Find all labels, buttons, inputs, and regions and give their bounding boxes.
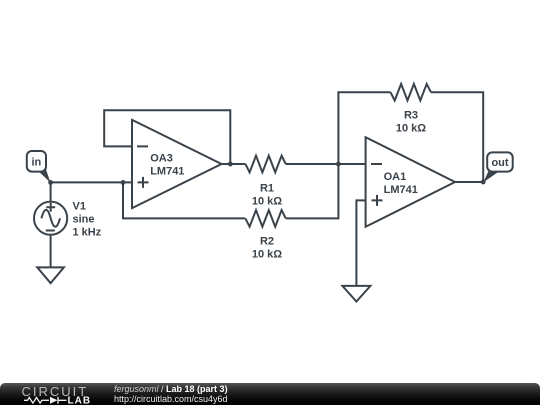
wire R1 right to minus node	[286, 163, 339, 165]
svg-text:10 kΩ: 10 kΩ	[396, 123, 426, 135]
node flag in	[27, 151, 51, 183]
node OA3 output	[228, 162, 233, 167]
wire R2 right to minus node	[286, 164, 339, 218]
wire node to OA1 minus input	[338, 163, 365, 165]
svg-text:OA3: OA3	[150, 152, 173, 164]
footer credit text	[114, 384, 228, 404]
svg-text:R1: R1	[260, 183, 274, 195]
ground under OA1	[342, 286, 370, 302]
svg-text:LAB: LAB	[68, 395, 92, 405]
node flag out	[483, 152, 512, 182]
svg-text:OA1: OA1	[384, 171, 407, 183]
wire V1 top lead	[50, 182, 52, 201]
wire OA3 feedback loop to minus input	[104, 110, 230, 164]
op-amp OA3	[132, 120, 222, 208]
node minus junction	[336, 162, 341, 167]
wire junction down and right to R2	[123, 182, 245, 218]
svg-text:sine: sine	[73, 214, 95, 226]
resistor R2	[245, 210, 285, 260]
node junction at OA3 plus	[121, 180, 126, 185]
wire OA1 plus input down to ground	[356, 200, 365, 286]
node junction at in	[48, 180, 53, 185]
svg-text:R2: R2	[260, 236, 274, 248]
wire OA1 output	[455, 181, 483, 183]
svg-text:out: out	[491, 157, 508, 169]
wire OA3 output to R1	[230, 163, 245, 165]
svg-text:LM741: LM741	[150, 166, 184, 178]
svg-text:in: in	[32, 157, 42, 169]
ground under V1	[37, 267, 64, 283]
resistor R1	[245, 156, 285, 208]
svg-text:1 kHz: 1 kHz	[73, 227, 102, 239]
svg-text:R3: R3	[404, 110, 418, 122]
wire junction to OA3 plus input	[123, 181, 132, 183]
CircuitLab logo	[0, 383, 110, 405]
op-amp OA1	[366, 137, 455, 227]
node output	[481, 180, 486, 185]
wire V1 bottom lead	[50, 235, 52, 268]
svg-text:10 kΩ: 10 kΩ	[252, 249, 282, 261]
wire in node to OA3 plus junction	[51, 181, 123, 183]
svg-text:LM741: LM741	[384, 184, 418, 196]
footer bar	[0, 383, 540, 405]
svg-text:10 kΩ: 10 kΩ	[252, 196, 282, 208]
wire OA3 output stub	[222, 163, 231, 165]
resistor R3	[391, 84, 431, 135]
svg-text:V1: V1	[73, 201, 86, 213]
wire node up to R3	[338, 92, 390, 164]
wire R3 right down to output	[431, 92, 483, 182]
voltage source V1	[34, 201, 102, 239]
